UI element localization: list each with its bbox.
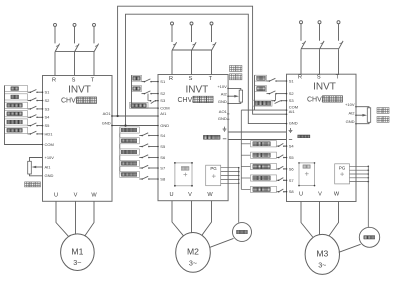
- svg-text:M2: M2: [187, 247, 199, 257]
- svg-text:GND: GND: [218, 99, 227, 104]
- svg-text:+10V: +10V: [45, 155, 55, 160]
- label RP1 dianweiqi: [25, 182, 30, 187]
- card tension U3: [299, 163, 315, 186]
- svg-text:AO1: AO1: [219, 109, 228, 114]
- svg-text:R: R: [169, 76, 173, 82]
- wire M2 to encoder E2: [210, 238, 234, 247]
- svg-text:GND: GND: [102, 121, 111, 126]
- svg-text:S4: S4: [45, 115, 51, 120]
- input label box U3 正转启动: [251, 141, 277, 147]
- svg-text:AI1: AI1: [45, 164, 52, 169]
- input label box U3 卷绕启动: [251, 175, 277, 181]
- svg-text:AI2: AI2: [221, 91, 228, 96]
- wire PG2 signal 1: [221, 167, 239, 169]
- inverter U2 body: [158, 75, 228, 201]
- svg-text:S: S: [317, 75, 321, 81]
- switch K1-4: [28, 116, 31, 118]
- wire PG3 signal 2: [350, 169, 369, 171]
- wire U3 W phase to motor: [328, 202, 338, 238]
- svg-text:AI2: AI2: [348, 110, 355, 115]
- input label box U1 反转启动: [5, 111, 28, 117]
- svg-text:S2: S2: [289, 91, 295, 96]
- svg-text:S5: S5: [289, 155, 295, 160]
- svg-text:INVT: INVT: [68, 84, 91, 95]
- potentiometer RP1 body: [28, 161, 32, 174]
- svg-text:+10V: +10V: [345, 102, 355, 107]
- svg-text:COM: COM: [45, 142, 54, 147]
- svg-text:R: R: [298, 75, 302, 81]
- wire PG2 signal 4: [221, 178, 239, 180]
- card PG U2: [206, 165, 221, 186]
- input label box U1 故障复位: [5, 119, 28, 125]
- switch K1-2: [28, 100, 31, 102]
- switch K2-2: [142, 93, 145, 95]
- wire U3 input stub S5: [241, 154, 250, 156]
- svg-text:S: S: [72, 78, 76, 84]
- wire PG2 signal 2: [221, 171, 239, 173]
- wire U3 COM wire: [241, 109, 286, 111]
- svg-text:INVT: INVT: [186, 85, 209, 96]
- wire PG2 signal 3: [221, 175, 239, 177]
- wire U3 input stub S4: [241, 143, 250, 145]
- switch K1-6: [28, 133, 31, 135]
- svg-text:S3: S3: [160, 98, 166, 103]
- wire U3 input stub S8: [241, 188, 250, 190]
- wire net AO1 master to slave2 AI1: [112, 115, 158, 117]
- svg-text:S8: S8: [160, 177, 166, 182]
- switch K1-5: [28, 125, 31, 127]
- wire PG3 signal 4: [350, 177, 369, 179]
- svg-text:GND: GND: [289, 120, 298, 125]
- input label box U2 紧急停止: [120, 171, 140, 177]
- wire U2 pot to GND: [228, 102, 241, 103]
- breaker QF1: [54, 23, 99, 75]
- junction node AO1: [117, 115, 119, 117]
- svg-text:S4: S4: [289, 144, 295, 149]
- wire PG3 signal 5: [350, 181, 369, 183]
- svg-text:W: W: [91, 193, 97, 199]
- wire PG2 to encoder: [238, 168, 240, 223]
- svg-text:S6: S6: [289, 166, 295, 171]
- wire U3 input stub S7: [241, 177, 250, 179]
- svg-text:PG: PG: [339, 166, 346, 171]
- label U3 pingbijiedi: [289, 139, 292, 141]
- encoder E2: [233, 223, 252, 242]
- switch K2-3: [149, 100, 151, 102]
- wire U3 lower input bus: [240, 110, 242, 189]
- svg-text:S: S: [189, 76, 193, 82]
- potentiometer RP2 body: [239, 90, 242, 102]
- ground U3 shield symbol: [290, 128, 292, 130]
- svg-text:M1: M1: [71, 246, 83, 256]
- switch K3-1: [267, 80, 270, 82]
- switch K2-S8: [139, 178, 142, 180]
- svg-text:INVT: INVT: [313, 82, 336, 93]
- input label box U2 正转启动: [120, 127, 140, 133]
- svg-text:W: W: [334, 192, 340, 198]
- label RP3 zhangli sheding: [377, 108, 383, 114]
- svg-text:S5: S5: [160, 144, 166, 149]
- wire U3 AI2 wiper: [356, 114, 363, 116]
- svg-text:3~: 3~: [73, 258, 81, 267]
- svg-text:V: V: [318, 192, 322, 198]
- junction node GND: [124, 124, 126, 126]
- wire U1 pot to GND: [30, 174, 43, 176]
- wire U1 COM bus: [5, 86, 43, 145]
- input label box U2 zhengzhuan: [132, 75, 142, 81]
- potentiometer RP3 body: [367, 108, 370, 123]
- svg-text:GND: GND: [160, 123, 169, 128]
- wire shield net 1 U2 to U3: [228, 131, 286, 133]
- wire PG3 to encoder: [367, 166, 369, 227]
- input label box U3 反转启动: [251, 152, 277, 158]
- svg-text:CHV/: CHV/: [61, 98, 78, 105]
- wire U2 AI2 wiper: [228, 95, 234, 97]
- switch K3-S6: [277, 168, 279, 170]
- wire shield net 2 U2 to U3: [228, 139, 286, 141]
- input label box U2 故障复位: [120, 149, 140, 155]
- motor M3: [305, 234, 339, 274]
- wire net GND master to slave2 GND: [112, 125, 158, 127]
- switch K2-S7: [139, 167, 142, 169]
- input label box U3 紧急停止: [251, 186, 277, 192]
- card tension U2: [175, 163, 192, 186]
- input label box U2 反转启动: [120, 138, 140, 144]
- svg-text:U: U: [54, 193, 58, 199]
- wire U1 W phase to motor: [85, 201, 94, 236]
- wire net GND loop to slave3 GND: [126, 14, 287, 125]
- card PG U3: [335, 164, 350, 184]
- svg-text:S2: S2: [160, 91, 166, 96]
- svg-text:S2: S2: [45, 98, 51, 103]
- svg-text:S1: S1: [289, 79, 295, 84]
- switch K2-S4: [139, 135, 142, 137]
- wire PG3 signal 3: [350, 173, 369, 175]
- label RP2 yali sheding: [230, 66, 236, 72]
- wire U2 COM bus upper: [131, 75, 133, 108]
- svg-text:S3: S3: [45, 106, 51, 111]
- svg-text:3~: 3~: [318, 261, 326, 270]
- svg-text:CHV/: CHV/: [178, 97, 195, 104]
- wire U3 +10V to pot RP3: [356, 107, 369, 108]
- input label box U1 正转启动: [5, 102, 28, 108]
- wire U3 pot to GND: [356, 122, 369, 123]
- switch K3-2: [267, 93, 270, 95]
- switch K2-S5: [139, 146, 142, 148]
- svg-text:S7: S7: [160, 166, 166, 171]
- svg-text:S1: S1: [45, 90, 51, 95]
- svg-text:S4: S4: [160, 133, 166, 138]
- switch K3-S4: [277, 145, 279, 147]
- wire U1 V phase to motor: [75, 201, 77, 234]
- wire U2 W phase to motor: [201, 201, 211, 237]
- input label box U1 紧急停止: [5, 127, 28, 133]
- ground U2 shield symbol: [224, 127, 226, 129]
- input label box U2 卷绕启动: [120, 160, 140, 166]
- wire PG3 signal 1: [350, 165, 369, 167]
- svg-text:T: T: [91, 78, 95, 84]
- wire U1 U phase to motor: [56, 201, 68, 236]
- wire U2 +10V to pot RP2: [228, 88, 241, 90]
- svg-text:CHV/: CHV/: [307, 96, 324, 103]
- svg-text:PG: PG: [210, 166, 217, 171]
- input label box U3 故障复位: [251, 164, 277, 170]
- svg-text:+10V: +10V: [217, 84, 227, 89]
- wire PG2 signal 5: [221, 182, 239, 184]
- wire net AO1 loop to slave3 AI1: [118, 6, 287, 116]
- svg-text:V: V: [188, 192, 192, 198]
- wire M3 to encoder E3: [339, 244, 361, 252]
- svg-text:S3: S3: [289, 98, 295, 103]
- switch K1-3: [28, 108, 31, 110]
- svg-text:U: U: [299, 192, 303, 198]
- wire U3 U phase to motor: [301, 202, 313, 238]
- svg-text:V: V: [74, 193, 78, 199]
- input label box U3 guzhangfuwei: [253, 100, 273, 106]
- breaker QF2: [171, 22, 217, 75]
- svg-text:S5: S5: [45, 123, 51, 128]
- svg-text:COM: COM: [160, 106, 169, 111]
- switch K2-S6: [139, 157, 142, 159]
- switch K2-1: [142, 81, 145, 83]
- wire U1 +10V to pot: [30, 158, 43, 162]
- svg-text:S7: S7: [289, 178, 295, 183]
- input label box U2 fanzhuan: [132, 86, 142, 92]
- wire U2 V phase to motor: [191, 201, 193, 233]
- svg-text:S1: S1: [160, 79, 166, 84]
- input label box U3 zhengzhuan: [255, 75, 267, 81]
- switch K3-3: [272, 100, 275, 102]
- svg-text:AI1: AI1: [160, 111, 167, 116]
- svg-text:S6: S6: [160, 155, 166, 160]
- svg-text:M3: M3: [316, 249, 328, 259]
- switch K3-S7: [277, 179, 279, 181]
- svg-text:GND: GND: [218, 116, 227, 121]
- wire U1 AI1 wiper: [36, 166, 43, 168]
- input label box U2 guzhangfuwei: [130, 102, 149, 108]
- svg-text:T: T: [336, 75, 340, 81]
- svg-text:AI1: AI1: [289, 109, 296, 114]
- svg-text:AO1: AO1: [103, 111, 112, 116]
- svg-text:R: R: [52, 78, 56, 84]
- wire U2 S2-S3 jumper: [147, 94, 149, 101]
- wire U3 COM bus upper: [254, 75, 256, 110]
- motor M1: [61, 234, 95, 271]
- inverter U1 body: [43, 76, 113, 202]
- svg-text:GND: GND: [346, 119, 355, 124]
- input label box U1 反转: [5, 94, 28, 100]
- svg-text:T: T: [209, 76, 213, 82]
- svg-text:W: W: [207, 192, 213, 198]
- encoder E3: [359, 227, 379, 247]
- switch K3-S8: [277, 191, 279, 193]
- input label box U1 正转: [5, 86, 28, 92]
- switch K1-1: [28, 91, 31, 93]
- switch K3-S5: [277, 157, 279, 159]
- label U2 pingbijiedi: [204, 135, 208, 139]
- input label box U3 fanzhuan: [255, 86, 267, 92]
- breaker QF3: [300, 21, 344, 74]
- wire U3 input stub S6: [241, 166, 250, 168]
- svg-text:GND: GND: [45, 173, 54, 178]
- inverter U3 body: [287, 74, 357, 201]
- wire U2 U phase to motor: [172, 201, 184, 237]
- svg-text:U: U: [169, 192, 173, 198]
- svg-text:HD1: HD1: [45, 131, 54, 136]
- svg-text:S8: S8: [289, 189, 295, 194]
- wire U3 V phase to motor: [319, 202, 321, 235]
- motor M2: [176, 233, 211, 273]
- wire U2 lower input bus: [119, 127, 121, 174]
- wire U3 S2-S3 jumper: [275, 94, 277, 101]
- svg-text:3~: 3~: [189, 259, 197, 268]
